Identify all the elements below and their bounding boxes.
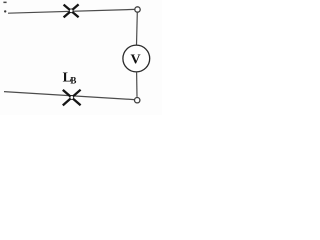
- switch X2 centre opening: [70, 96, 74, 100]
- wire bottom horizontal: [4, 92, 134, 100]
- switch X2 bottom (cross on wire): [63, 90, 81, 106]
- svg-text:V: V: [131, 52, 141, 67]
- voltmeter V1 body: [123, 45, 150, 72]
- terminal node bottom: [135, 98, 140, 103]
- speck dot top-left: [4, 10, 6, 12]
- switch X1 centre opening: [69, 9, 73, 13]
- wire top horizontal: [8, 9, 135, 13]
- wire right vertical lower: [136, 72, 138, 97]
- switch X1 top (cross on wire): [64, 4, 79, 17]
- terminal node top: [135, 7, 140, 12]
- wire right vertical upper: [136, 12, 139, 45]
- speck dash top-left: [3, 2, 6, 3]
- svg-text:B: B: [70, 76, 76, 86]
